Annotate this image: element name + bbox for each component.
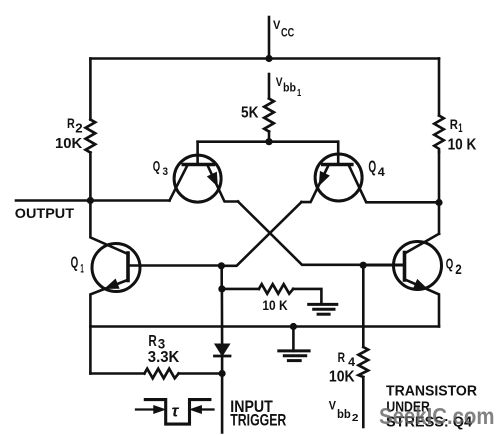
transistor Q3 [170,142,239,202]
wire Q3 emitter horizontal [90,199,169,202]
transistor Q1 [90,201,221,327]
wire R3 left lead [90,372,144,375]
resistor 5K [264,99,274,132]
resistor R2 [86,120,96,153]
node Q1 base junction [218,262,225,269]
svg-text:V: V [273,18,280,32]
svg-text:4: 4 [348,355,355,369]
wire left rail upper [89,59,92,120]
svg-text:V: V [276,75,283,89]
wire right rail upper [438,59,441,116]
svg-text:5K: 5K [241,105,258,122]
wire left rail lower to R3 [89,327,92,374]
svg-text:1: 1 [80,262,84,276]
svg-text:2: 2 [352,412,359,424]
wire R3 right lead [179,372,223,375]
svg-text:10 K: 10 K [262,298,287,313]
wire 10K left lead [222,288,259,291]
wire right rail mid [438,152,441,203]
svg-text:4: 4 [378,165,385,179]
trigger pulse symbol [145,400,210,425]
label Q3 [153,158,168,178]
svg-text:3: 3 [163,166,169,178]
svg-text:Q: Q [368,158,376,176]
label R1 [450,116,463,135]
svg-text:Q: Q [71,254,79,271]
wire bottom rail [90,325,439,328]
svg-text:1: 1 [297,87,301,99]
label Q1 [71,254,84,275]
svg-text:10K: 10K [55,135,82,152]
wire R1 node to Q2 collector [438,203,441,234]
label Q4 [368,158,385,179]
wire output line [16,199,90,202]
svg-text:R: R [67,115,75,131]
label Q2 [446,256,462,278]
wire 10K right lead to ground [293,289,321,304]
svg-text:10 K: 10 K [448,137,478,154]
node Q2 base junction [360,262,367,269]
wire left rail mid [89,153,92,201]
node Vbb1 junction [265,138,272,145]
resistor R4 [359,347,369,377]
diode D1 [215,344,231,356]
node output junction [87,197,94,204]
label R4 [338,349,356,369]
wire Q3-Q4 base rail [198,140,339,143]
transistor Q4 [301,142,439,203]
node R1 junction [435,199,442,206]
svg-text:R: R [450,116,458,132]
transistor Q2 [363,234,441,327]
svg-text:R: R [338,349,345,365]
label TRANSISTOR UNDER STRESS [386,384,478,431]
svg-text:2: 2 [455,262,462,277]
svg-text:Q: Q [446,256,454,273]
wire 5K to base rail [268,132,271,142]
ground bottom [279,327,309,361]
wire Vbb1 stem [268,74,271,99]
svg-text:OUTPUT: OUTPUT [15,206,75,221]
wire Q1 base node down [220,266,223,289]
resistor 10K middle [259,284,293,294]
node Vcc junction [265,55,272,62]
svg-text:CC: CC [281,26,294,40]
svg-text:10K: 10K [329,368,356,385]
svg-text:R: R [148,333,156,350]
label Vbb1 [276,75,302,99]
svg-text:Q: Q [153,158,161,175]
svg-text:SeekIC.com: SeekIC.com [379,403,495,429]
wire cross-couple Q4 to Q1 base [221,202,301,266]
wire R4 vertical upper [362,265,365,347]
svg-text:2: 2 [75,121,82,136]
node R3 junction [219,370,226,377]
wire Vbb2 stem [362,377,365,427]
resistor R3 [144,369,178,379]
svg-text:3.3K: 3.3K [148,349,180,366]
label R2 [67,115,83,136]
svg-text:TRIGGER: TRIGGER [230,412,286,430]
trigger pulse arrowheads [154,406,165,414]
label Vbb2 [329,401,359,425]
svg-text:TRANSISTOR: TRANSISTOR [386,384,478,400]
label R3 [148,333,165,352]
label Vcc [273,18,294,40]
svg-text:τ: τ [172,402,180,421]
ground middle [309,304,337,314]
svg-text:bb: bb [337,407,351,421]
wire cross-couple Q3 to Q2 base [238,202,405,265]
node 10K junction [218,285,225,292]
resistor R1 [434,116,444,153]
wire Vcc stem [268,17,271,59]
svg-text:V: V [329,401,337,413]
wire top rail [90,57,439,60]
svg-text:1: 1 [458,121,463,135]
node ground junction [290,323,297,330]
wire trigger vertical [221,289,224,433]
svg-text:bb: bb [283,81,296,95]
